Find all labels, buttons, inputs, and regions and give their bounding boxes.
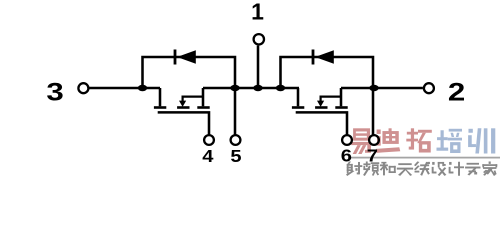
svg-text:2: 2 — [448, 78, 465, 106]
svg-text:4: 4 — [202, 147, 214, 167]
svg-text:3: 3 — [46, 78, 63, 106]
svg-text:5: 5 — [230, 147, 242, 167]
svg-text:6: 6 — [341, 146, 352, 166]
svg-text:1: 1 — [251, 0, 264, 25]
